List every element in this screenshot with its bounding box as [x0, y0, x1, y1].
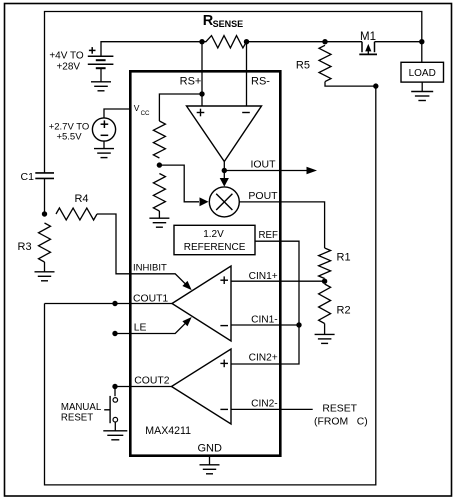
battery V1 plus sign: [89, 49, 96, 51]
svg-text:M1: M1: [360, 31, 376, 43]
resistor R4: [56, 208, 97, 220]
op-amp A1 minus: [242, 112, 250, 114]
transistor M1 arrow: [367, 50, 369, 54]
svg-text:R2: R2: [337, 305, 351, 317]
wire RS- into IC: [246, 42, 248, 106]
ground GND pin: [200, 464, 220, 466]
switch SW1 contact bottom: [113, 417, 118, 422]
svg-text:+4V TO: +4V TO: [49, 51, 84, 62]
svg-text:C1: C1: [21, 171, 35, 183]
arrow into multiplier left: [200, 197, 209, 206]
transistor M1 terminals: [361, 42, 363, 53]
node M1 drain junction: [419, 39, 424, 44]
arrow multiplier top: [220, 178, 229, 187]
svg-text:1.2V: 1.2V: [203, 229, 224, 240]
wire R5 bottom to M1 gate: [325, 82, 376, 87]
wire IOUT: [224, 170, 306, 172]
wire RS- node to M1: [247, 41, 363, 43]
resistor R3: [39, 223, 51, 262]
svg-text:INHIBIT: INHIBIT: [133, 263, 167, 274]
source V2 plus: [101, 123, 109, 125]
node IOUT junction: [222, 168, 227, 173]
node RS- top junction: [244, 39, 249, 44]
wire CIN1+ row: [231, 280, 325, 282]
arrow IOUT: [307, 167, 318, 174]
wire RS+ to divider: [159, 94, 202, 121]
node RS+ internal junction: [199, 91, 204, 96]
battery V1 stub: [100, 68, 102, 82]
ground battery: [91, 81, 111, 83]
comparator A2 plus: [220, 279, 228, 281]
comparator A2: [172, 266, 231, 341]
multiplier X1 cross: [216, 194, 232, 210]
node COUT2 junction: [112, 384, 117, 389]
svg-text:COUT2: COUT2: [134, 376, 169, 387]
wire divider to ground: [158, 211, 160, 218]
svg-text:V: V: [134, 103, 140, 113]
switch SW1 actuator: [109, 396, 111, 423]
ground LOAD: [411, 91, 433, 93]
ground switch: [103, 430, 127, 432]
svg-text:R4: R4: [74, 193, 88, 205]
wire REF net: [231, 241, 299, 364]
resistor internal R7: [153, 174, 165, 212]
wire LE: [115, 321, 188, 333]
resistor R2: [319, 284, 331, 324]
wire R3 to ground: [44, 262, 46, 272]
wire R4 to INHIBIT: [97, 214, 131, 274]
svg-text:CIN1+: CIN1+: [249, 271, 278, 282]
wire LOAD to ground: [421, 82, 423, 91]
resistor RSENSE: [202, 36, 247, 48]
wire COUT1 row: [45, 303, 173, 305]
wire battery to RS+ node: [101, 42, 202, 57]
svg-text:(FROM C): (FROM C): [314, 416, 368, 427]
wire divider to multiplier: [159, 165, 199, 202]
comparator A3 minus: [220, 408, 228, 410]
load box: [401, 62, 444, 82]
ground V2: [94, 148, 114, 150]
svg-text:+28V: +28V: [56, 62, 80, 73]
wire M1 drain to load node: [375, 41, 422, 43]
node B junction dot: [42, 211, 47, 216]
svg-text:REF: REF: [259, 230, 278, 241]
source V2 circle: [92, 118, 115, 141]
capacitor C1: [35, 172, 54, 174]
ground divider: [149, 217, 169, 219]
wire CIN2- row: [231, 408, 313, 410]
svg-text:+5.5V: +5.5V: [56, 131, 82, 142]
wire COUT1 feedback loop: [45, 86, 376, 485]
op-amp A1: [187, 106, 262, 162]
svg-text:MANUAL: MANUAL: [61, 402, 102, 413]
wire GND pin: [209, 457, 211, 465]
svg-text:MAX4211: MAX4211: [145, 425, 191, 437]
node LE junction: [112, 331, 117, 336]
wire COUT2 row: [115, 386, 172, 388]
wire R2 to ground: [324, 324, 326, 335]
comparator A3 plus: [220, 362, 228, 364]
svg-text:GND: GND: [197, 443, 222, 455]
svg-text:IOUT: IOUT: [250, 158, 276, 170]
resistor R1: [319, 248, 331, 279]
svg-text:CIN2-: CIN2-: [251, 398, 278, 409]
source V2 stub: [103, 141, 105, 149]
arrow INHIBIT: [182, 281, 191, 290]
svg-text:CIN2+: CIN2+: [249, 352, 278, 363]
svg-text:POUT: POUT: [248, 190, 278, 202]
comparator A2 minus: [220, 325, 228, 327]
wire RS+ into IC: [201, 42, 203, 106]
wire V2 to Vcc pin: [104, 109, 130, 118]
reference box: [174, 225, 255, 254]
svg-text:R1: R1: [337, 252, 351, 264]
svg-text:R5: R5: [296, 60, 310, 72]
svg-text:CC: CC: [141, 110, 150, 117]
svg-text:R3: R3: [18, 241, 32, 253]
wire POUT to R1: [239, 202, 324, 248]
arrow LE: [182, 317, 191, 326]
node M1 gate junction: [373, 83, 378, 88]
svg-text:CIN1-: CIN1-: [251, 315, 278, 326]
svg-text:LOAD: LOAD: [409, 68, 436, 79]
wire COUT2 to switch: [114, 387, 116, 397]
svg-text:RESET: RESET: [61, 413, 93, 424]
multiplier X1 circle: [209, 187, 239, 217]
wire node to LOAD: [421, 42, 423, 63]
ground R3: [35, 271, 55, 273]
ground R2: [315, 333, 335, 335]
wire INHIBIT: [131, 274, 188, 286]
svg-text:REFERENCE: REFERENCE: [184, 242, 246, 253]
resistor internal R6: [153, 121, 165, 158]
node RS+ top junction: [199, 39, 204, 44]
switch SW1 contact top: [113, 398, 118, 403]
wire arrow into multiplier top: [223, 171, 225, 179]
svg-text:RS+: RS+: [180, 75, 202, 87]
svg-text:RS-: RS-: [251, 75, 270, 87]
svg-text:LE: LE: [134, 323, 147, 334]
wire load-sense loop top: [45, 12, 422, 173]
node divider junction: [157, 162, 162, 167]
svg-text:RESET: RESET: [322, 404, 357, 415]
wire A1 output: [223, 162, 225, 171]
transistor M1 gate bar: [359, 53, 377, 55]
node COUT1 junction: [112, 301, 117, 306]
wire switch to ground: [114, 422, 116, 431]
node CIN1- junction: [296, 322, 301, 327]
wire CIN1- row: [231, 324, 299, 326]
resistor R5: [319, 45, 331, 81]
node R1 R2 junction: [322, 279, 327, 284]
IC U1 MAX4211 outline: [130, 71, 280, 455]
svg-text:SENSE: SENSE: [213, 19, 244, 29]
node R5 top junction: [322, 39, 327, 44]
comparator A3: [172, 349, 232, 424]
op-amp A1 plus: [197, 112, 205, 114]
battery V1 plates: [88, 55, 114, 57]
source V2 minus: [101, 134, 109, 136]
wire C1 to node B: [44, 178, 46, 214]
